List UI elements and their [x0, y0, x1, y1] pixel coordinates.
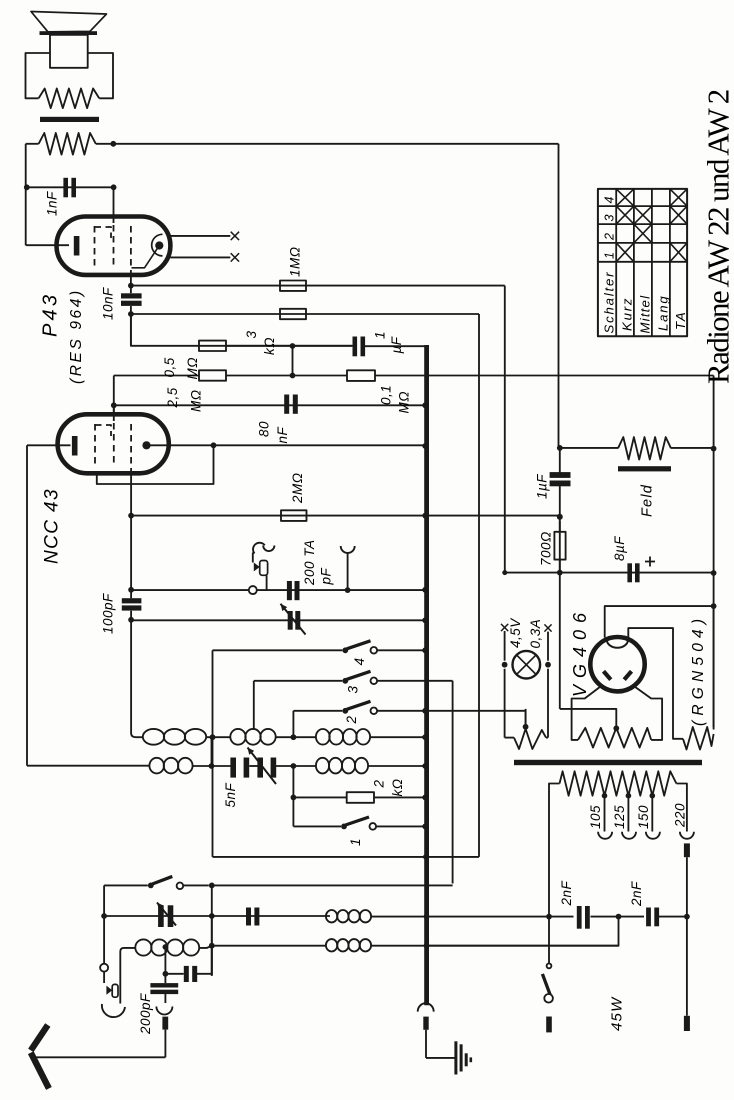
svg-text:5nF: 5nF	[223, 782, 238, 807]
svg-text:0,3A: 0,3A	[528, 619, 543, 649]
svg-text:kΩ: kΩ	[390, 778, 405, 796]
svg-text:4: 4	[603, 197, 617, 204]
svg-text:3: 3	[603, 215, 617, 222]
svg-text:8µF: 8µF	[612, 536, 627, 561]
svg-text:4: 4	[352, 657, 367, 665]
svg-text:700Ω: 700Ω	[539, 531, 554, 566]
svg-text:MΩ: MΩ	[189, 389, 204, 412]
svg-text:MΩ: MΩ	[397, 391, 412, 414]
svg-text:0,1: 0,1	[379, 385, 394, 405]
svg-text:MΩ: MΩ	[185, 357, 200, 380]
svg-text:1µF: 1µF	[535, 474, 550, 499]
svg-text:1MΩ: 1MΩ	[288, 246, 303, 277]
svg-text:2,5: 2,5	[165, 387, 180, 408]
svg-text:NCC 43: NCC 43	[42, 488, 63, 564]
svg-text:3: 3	[244, 330, 259, 338]
svg-text:0,5: 0,5	[162, 357, 177, 377]
svg-text:VG406: VG406	[570, 606, 590, 697]
svg-text:2: 2	[603, 233, 617, 241]
svg-text:Mittel: Mittel	[638, 295, 653, 334]
svg-text:80: 80	[257, 421, 272, 437]
svg-text:(RES 964): (RES 964)	[68, 288, 85, 384]
svg-text:Kurz: Kurz	[620, 297, 635, 331]
svg-text:Radione AW 22 und AW 2: Radione AW 22 und AW 2	[701, 90, 734, 384]
svg-text:2nF: 2nF	[559, 880, 574, 906]
svg-text:4,5V: 4,5V	[508, 617, 523, 648]
svg-text:200 TA: 200 TA	[302, 539, 317, 586]
svg-text:125: 125	[612, 805, 627, 829]
svg-text:2MΩ: 2MΩ	[290, 472, 305, 504]
svg-text:150: 150	[636, 805, 651, 829]
svg-text:P43: P43	[40, 292, 62, 337]
svg-text:105: 105	[588, 805, 603, 829]
svg-text:2: 2	[344, 715, 359, 724]
svg-text:2: 2	[372, 779, 387, 788]
svg-text:200pF: 200pF	[138, 993, 153, 1035]
svg-text:Schalter: Schalter	[602, 271, 617, 334]
svg-text:1: 1	[603, 252, 617, 259]
svg-text:3: 3	[346, 685, 361, 693]
svg-text:1nF: 1nF	[45, 191, 60, 216]
svg-text:1: 1	[348, 838, 363, 846]
svg-text:100pF: 100pF	[101, 593, 116, 634]
svg-text:(RGN504): (RGN504)	[690, 614, 707, 726]
svg-text:Feld: Feld	[640, 484, 656, 517]
svg-text:2nF: 2nF	[629, 881, 644, 907]
svg-text:nF: nF	[275, 426, 290, 443]
svg-text:µF: µF	[389, 336, 404, 353]
svg-text:pF: pF	[319, 567, 334, 585]
svg-text:TA: TA	[673, 311, 688, 330]
svg-text:220: 220	[673, 803, 688, 828]
svg-text:45W: 45W	[609, 996, 626, 1031]
svg-text:Lang: Lang	[656, 294, 671, 331]
svg-text:kΩ: kΩ	[262, 337, 277, 355]
svg-text:1: 1	[373, 331, 388, 339]
svg-text:10nF: 10nF	[101, 287, 116, 320]
